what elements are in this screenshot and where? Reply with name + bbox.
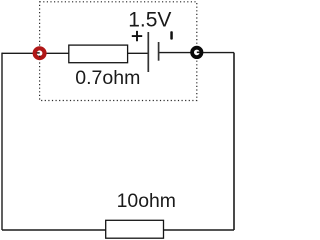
battery plus sign bbox=[132, 31, 142, 41]
node B wire stub bbox=[197, 51, 200, 53]
node B black terminal bbox=[192, 48, 201, 57]
battery internal dashed boundary box bbox=[40, 2, 197, 101]
node A wire stub bbox=[37, 52, 40, 54]
svg-text:10ohm: 10ohm bbox=[117, 190, 176, 212]
wire top-left horizontal bbox=[2, 52, 148, 54]
resistor R2 10ohm box bbox=[106, 220, 164, 238]
svg-text:1.5V: 1.5V bbox=[128, 9, 171, 32]
wire top-right horizontal bbox=[159, 52, 234, 54]
battery U1 long positive plate bbox=[147, 32, 149, 72]
wire right vertical bbox=[233, 53, 235, 230]
node A dash dot bbox=[39, 56, 40, 58]
node A red terminal bbox=[35, 48, 45, 58]
svg-text:0.7ohm: 0.7ohm bbox=[75, 67, 140, 89]
resistor R1 0.7ohm box bbox=[69, 45, 128, 63]
wire left vertical bbox=[1, 53, 3, 230]
wire bottom horizontal bbox=[2, 229, 234, 231]
battery U1 short negative plate bbox=[158, 42, 160, 61]
battery minus tick bbox=[170, 31, 173, 39]
